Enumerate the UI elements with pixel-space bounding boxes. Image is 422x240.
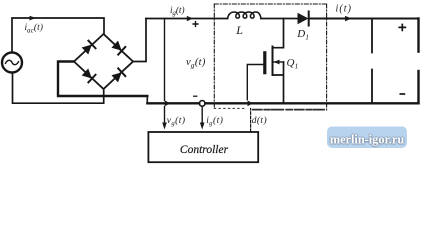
- diode D lower-right: [111, 68, 125, 82]
- arrow i_g: [187, 16, 193, 21]
- capacitor C lead top: [371, 19, 373, 53]
- ac source V1: [2, 53, 22, 73]
- svg-text:iac(t): iac(t): [25, 22, 44, 34]
- diode D1: [298, 13, 309, 25]
- plus v_g: [192, 21, 198, 27]
- svg-text:i(t): i(t): [336, 3, 353, 14]
- diode D upper-left: [81, 41, 95, 55]
- d(t) control line dashed: [250, 109, 252, 132]
- mosfet Q1 channel bar: [272, 47, 274, 76]
- load right edge top: [417, 19, 419, 52]
- wire: ac top rail: [12, 18, 104, 53]
- sine symbol: [6, 60, 19, 64]
- mosfet Q1 gate lead: [247, 65, 263, 100]
- svg-text:D1: D1: [296, 28, 309, 42]
- diode D upper-right: [111, 40, 125, 54]
- wire: bridge plus up to main rail: [133, 19, 146, 62]
- wire: step down to bottom rail: [146, 96, 148, 103]
- mosfet Q1 drain wire: [273, 19, 284, 48]
- load right edge bottom: [417, 71, 419, 103]
- svg-text:Q1: Q1: [287, 57, 299, 71]
- plus output: [398, 24, 406, 32]
- svg-text:vg(t): vg(t): [167, 115, 186, 127]
- mosfet Q1 body arrow: [274, 61, 284, 63]
- diode D lower-left: [81, 68, 95, 82]
- wire: main top rail left segment: [146, 18, 228, 20]
- mosfet Q1 gate bar: [263, 53, 266, 73]
- controller box: [148, 132, 258, 162]
- bridge rectifier diamond wires: [74, 34, 133, 89]
- watermark merlin-igor.ru: [327, 127, 407, 149]
- svg-text:vg(t): vg(t): [186, 57, 206, 70]
- wire: rail D1 to right edge: [310, 18, 419, 20]
- minus v_g: [193, 95, 197, 97]
- svg-text:Controller: Controller: [180, 144, 229, 156]
- v_g sense wire top rail to controller: [164, 19, 166, 127]
- mosfet Q1 source wire: [273, 62, 284, 103]
- current sensor node circle: [199, 101, 205, 107]
- crossing arrow at v_g sense: [165, 101, 171, 107]
- svg-text:ig(t): ig(t): [206, 115, 223, 127]
- minus output: [400, 93, 406, 95]
- wire: bottom rail: [147, 102, 418, 104]
- arrow i_ac: [30, 16, 37, 21]
- svg-text:d(t): d(t): [252, 115, 267, 126]
- svg-text:merlin-igor.ru: merlin-igor.ru: [330, 133, 405, 147]
- crossing arrow at d(t): [248, 101, 254, 107]
- capacitor C lead bottom: [371, 70, 373, 104]
- i_g sense wire from sensor to controller: [201, 106, 203, 126]
- wire: rail L to D1: [261, 18, 298, 20]
- inductor L: [228, 12, 262, 19]
- arrow i(t): [345, 16, 352, 21]
- dashed converter box: [214, 3, 326, 5]
- wire: ac bottom: [13, 73, 104, 103]
- svg-text:L: L: [235, 23, 243, 37]
- wire: bridge minus return: [58, 62, 147, 97]
- svg-text:ig(t): ig(t): [170, 5, 185, 17]
